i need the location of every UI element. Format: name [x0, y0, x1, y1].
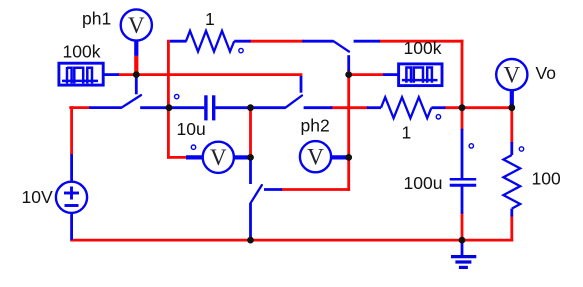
svg-text:1: 1 — [402, 123, 412, 143]
svg-text:100k: 100k — [404, 38, 442, 58]
svg-text:10u: 10u — [177, 119, 206, 139]
svg-text:V: V — [307, 145, 324, 170]
svg-text:ph2: ph2 — [301, 116, 330, 136]
svg-text:100: 100 — [532, 169, 561, 189]
svg-text:1: 1 — [205, 9, 215, 29]
svg-text:100k: 100k — [63, 42, 101, 62]
svg-text:ph1: ph1 — [82, 9, 111, 29]
svg-text:V: V — [128, 13, 145, 38]
svg-text:Vo: Vo — [536, 63, 556, 83]
svg-text:100u: 100u — [404, 173, 443, 193]
svg-text:10V: 10V — [22, 187, 53, 207]
svg-text:V: V — [210, 145, 227, 170]
svg-text:V: V — [503, 62, 520, 87]
